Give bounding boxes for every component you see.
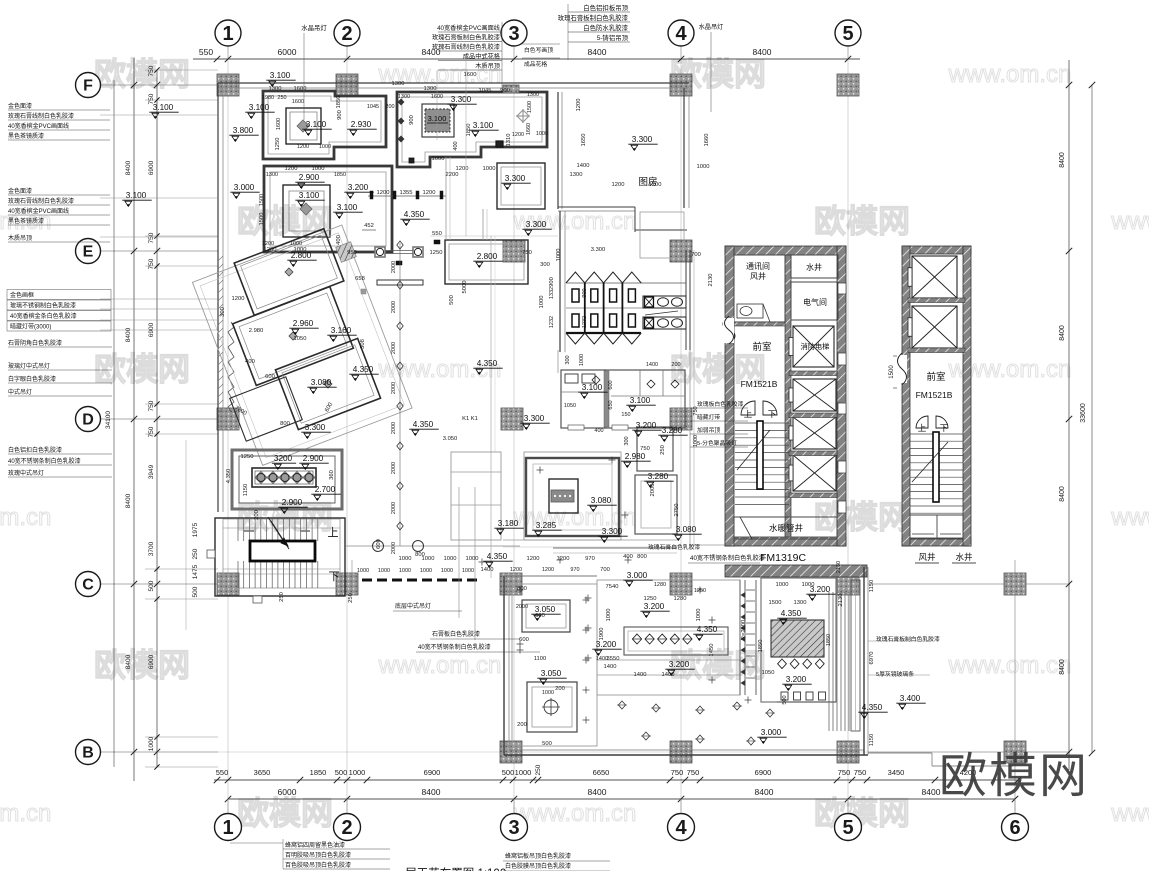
- svg-text:3.285: 3.285: [536, 521, 557, 530]
- svg-text:1000: 1000: [483, 166, 496, 172]
- svg-text:8400: 8400: [125, 160, 132, 175]
- svg-text:2000: 2000: [391, 502, 397, 514]
- svg-text:750: 750: [148, 65, 155, 76]
- svg-text:2.900: 2.900: [299, 173, 320, 182]
- svg-text:1000: 1000: [399, 568, 411, 574]
- axis bubble grid markers: [215, 20, 241, 46]
- svg-text:2000: 2000: [650, 484, 656, 497]
- svg-text:3.100: 3.100: [337, 203, 358, 212]
- svg-text:1850: 1850: [758, 640, 764, 653]
- core internal partition vertical: [785, 255, 791, 537]
- right lobby door: [916, 416, 928, 428]
- svg-text:8400: 8400: [125, 327, 132, 342]
- svg-text:1250: 1250: [430, 250, 443, 256]
- svg-text:百色胶吸吊顶白色乳胶漆: 百色胶吸吊顶白色乳胶漆: [285, 861, 351, 869]
- svg-text:400: 400: [623, 554, 633, 560]
- svg-text:1000: 1000: [466, 556, 479, 562]
- svg-text:1200: 1200: [542, 567, 554, 573]
- svg-text:452: 452: [364, 223, 374, 229]
- svg-text:金色面漆: 金色面漆: [8, 187, 32, 195]
- leader lines down to notes: [458, 487, 460, 618]
- svg-text:250: 250: [277, 95, 286, 101]
- partition under tongxun room: [734, 322, 785, 326]
- svg-text:白色铝扣白色乳胶漆: 白色铝扣白色乳胶漆: [8, 446, 62, 454]
- svg-text:2000: 2000: [391, 382, 397, 394]
- svg-text:3.100: 3.100: [270, 71, 291, 80]
- svg-text:8400: 8400: [588, 47, 607, 57]
- svg-text:3.300: 3.300: [524, 414, 545, 423]
- svg-text:1000: 1000: [420, 568, 432, 574]
- svg-text:www.om.cn: www.om.cn: [378, 652, 502, 679]
- svg-text:8400: 8400: [1059, 486, 1066, 502]
- room dianqijian: [791, 282, 838, 320]
- svg-text:www.om.cn: www.om.cn: [0, 800, 51, 827]
- svg-text:3.100: 3.100: [126, 191, 147, 200]
- stair side tab: [207, 550, 215, 558]
- svg-text:1000: 1000: [556, 249, 562, 262]
- svg-text:风井: 风井: [918, 552, 935, 562]
- svg-text:3650: 3650: [254, 768, 271, 777]
- svg-text:800: 800: [517, 586, 527, 592]
- svg-text:3.100: 3.100: [299, 191, 320, 200]
- slanted counter line: [645, 311, 678, 315]
- svg-text:通讯间: 通讯间: [746, 261, 770, 271]
- basin symbol in tongxun room: [737, 304, 763, 318]
- svg-text:www.: www.: [1110, 504, 1149, 531]
- escalator corridor strip: [739, 580, 741, 695]
- B axis wall step right of wing: [868, 752, 932, 754]
- svg-text:B: B: [82, 745, 94, 762]
- svg-text:300: 300: [624, 436, 630, 445]
- svg-text:玫瑰石膏白色乳胶漆: 玫瑰石膏白色乳胶漆: [648, 543, 700, 551]
- svg-text:1300: 1300: [527, 92, 539, 98]
- svg-text:2.980: 2.980: [625, 452, 646, 461]
- svg-text:黑色茶镜质漆: 黑色茶镜质漆: [8, 132, 44, 140]
- fire elevator shaft: [793, 326, 834, 367]
- svg-text:3.080: 3.080: [676, 525, 697, 534]
- svg-text:8400: 8400: [1059, 325, 1066, 341]
- dark ceiling panel 3.100 in room B: [422, 104, 454, 137]
- kitchen right wall: [683, 88, 685, 208]
- right core shaft separators: [908, 298, 965, 303]
- svg-text:2130: 2130: [836, 561, 842, 573]
- wing left room: [512, 584, 597, 746]
- svg-text:1000: 1000: [462, 568, 474, 574]
- svg-text:900: 900: [409, 115, 415, 125]
- svg-text:1200: 1200: [423, 190, 436, 196]
- svg-text:电气间: 电气间: [803, 297, 827, 307]
- left dimension chains: [133, 58, 135, 781]
- svg-text:3.200: 3.200: [636, 421, 657, 430]
- svg-text:700: 700: [600, 567, 610, 573]
- svg-text:300: 300: [540, 262, 550, 268]
- svg-text:8400: 8400: [1059, 659, 1066, 675]
- elevator shaft 3: [793, 455, 836, 491]
- rotated room 2.960: [233, 287, 354, 386]
- svg-text:2000: 2000: [391, 462, 397, 474]
- svg-text:5: 5: [842, 817, 853, 839]
- svg-text:1200: 1200: [297, 144, 309, 150]
- svg-text:500: 500: [192, 586, 199, 597]
- svg-text:3.400: 3.400: [900, 694, 921, 703]
- svg-text:3.300: 3.300: [591, 247, 606, 253]
- svg-text:3.100: 3.100: [582, 383, 603, 392]
- svg-text:4.350: 4.350: [862, 703, 883, 712]
- svg-text:4.350: 4.350: [413, 420, 434, 429]
- svg-text:8400: 8400: [1059, 152, 1066, 168]
- hall right corridor line: [490, 236, 492, 578]
- svg-text:欧模网: 欧模网: [237, 795, 333, 831]
- svg-text:1000: 1000: [802, 582, 815, 588]
- elevator door notches right wall: [838, 283, 846, 294]
- svg-text:2750: 2750: [674, 504, 680, 517]
- svg-text:2.900: 2.900: [303, 454, 324, 463]
- rotated cluster diamonds: [285, 268, 293, 276]
- svg-text:650: 650: [608, 400, 614, 409]
- svg-text:4.350: 4.350: [781, 609, 802, 618]
- svg-text:4.350: 4.350: [477, 359, 498, 368]
- svg-text:白色胶膜吊顶白色乳胶漆: 白色胶膜吊顶白色乳胶漆: [505, 862, 571, 870]
- svg-text:500: 500: [782, 695, 788, 704]
- svg-text:2000: 2000: [391, 301, 397, 313]
- svg-text:3.100: 3.100: [630, 396, 651, 405]
- right core bottom rooms: [910, 515, 963, 539]
- svg-text:1200: 1200: [649, 182, 662, 188]
- svg-text:1000: 1000: [349, 768, 366, 777]
- svg-text:前室: 前室: [926, 371, 945, 383]
- svg-text:1500: 1500: [889, 365, 895, 379]
- svg-text:1000: 1000: [378, 568, 390, 574]
- svg-text:3.000: 3.000: [627, 571, 648, 580]
- svg-text:1000: 1000: [357, 568, 369, 574]
- svg-text:8400: 8400: [755, 787, 774, 797]
- svg-text:4.350: 4.350: [487, 552, 508, 561]
- svg-text:下: 下: [940, 423, 949, 433]
- svg-text:1660: 1660: [704, 134, 710, 147]
- column at grid 3 top: [503, 85, 519, 93]
- small boxes row: [781, 692, 788, 700]
- svg-text:玫瑰石膏线制白色乳胶漆: 玫瑰石膏线制白色乳胶漆: [432, 43, 500, 51]
- svg-text:3.200: 3.200: [644, 602, 665, 611]
- svg-text:1100: 1100: [534, 656, 546, 662]
- svg-text:6650: 6650: [593, 768, 610, 777]
- svg-text:970: 970: [570, 567, 579, 573]
- svg-text:1000: 1000: [319, 144, 331, 150]
- vertical axis lines: [227, 47, 229, 58]
- right core staircase: [910, 433, 963, 435]
- svg-text:1000: 1000: [444, 556, 457, 562]
- svg-text:前室: 前室: [752, 341, 771, 353]
- crosshair ceiling fixture: [544, 700, 558, 714]
- svg-text:1400: 1400: [662, 672, 675, 678]
- svg-text:1200: 1200: [612, 182, 625, 188]
- svg-text:200: 200: [517, 722, 527, 728]
- svg-text:5-铸铝吊顶: 5-铸铝吊顶: [597, 33, 629, 42]
- svg-text:1250: 1250: [694, 588, 706, 594]
- room 3.100 second left (E row) ceiling band: [264, 166, 392, 252]
- svg-text:1280: 1280: [674, 596, 687, 602]
- top dimension line: [193, 58, 860, 60]
- svg-text:玫瑰石膏板制白色乳胶漆: 玫瑰石膏板制白色乳胶漆: [876, 635, 940, 643]
- svg-text:360: 360: [329, 470, 335, 480]
- svg-text:6900: 6900: [755, 768, 772, 777]
- svg-text:6000: 6000: [278, 787, 297, 797]
- svg-text:1300: 1300: [794, 600, 807, 606]
- svg-text:1250: 1250: [644, 596, 657, 602]
- svg-text:200: 200: [385, 104, 394, 110]
- svg-text:6000: 6000: [278, 47, 297, 57]
- svg-text:600: 600: [535, 613, 545, 619]
- room tongxunjian fengjing: [734, 255, 785, 322]
- svg-text:800: 800: [280, 421, 290, 427]
- svg-text:1250: 1250: [241, 454, 254, 460]
- svg-text:D: D: [82, 412, 94, 429]
- bottom wing outline: [503, 576, 505, 755]
- diamond row center: [632, 634, 641, 644]
- svg-text:1050: 1050: [762, 670, 775, 676]
- svg-text:6900: 6900: [424, 768, 441, 777]
- svg-text:40宽不锈钢条制白色乳胶漆: 40宽不锈钢条制白色乳胶漆: [418, 643, 491, 651]
- svg-text:4.350: 4.350: [404, 210, 425, 219]
- svg-text:1300: 1300: [424, 86, 437, 92]
- svg-text:白字眼白色乳胶漆: 白字眼白色乳胶漆: [8, 375, 56, 383]
- svg-text:8400: 8400: [588, 787, 607, 797]
- svg-text:黑色茶镜质漆: 黑色茶镜质漆: [8, 217, 44, 225]
- svg-text:加弱吊顶: 加弱吊顶: [697, 426, 720, 434]
- svg-text:950: 950: [347, 250, 357, 256]
- svg-text:1: 1: [222, 23, 233, 45]
- svg-text:5-分色聚晶吸灯: 5-分色聚晶吸灯: [697, 439, 737, 447]
- svg-text:3700: 3700: [148, 541, 155, 556]
- small rooms left of big room: [451, 452, 501, 540]
- hall long bar: [377, 280, 423, 285]
- svg-text:1600: 1600: [276, 118, 282, 130]
- svg-text:K1 K1: K1 K1: [462, 416, 478, 422]
- svg-text:水井: 水井: [955, 552, 972, 562]
- svg-text:1045: 1045: [479, 88, 492, 94]
- svg-text:3.080: 3.080: [311, 378, 332, 387]
- diamond row right: [778, 659, 787, 669]
- svg-text:550: 550: [216, 768, 229, 777]
- wing left room box 2: [527, 682, 577, 732]
- svg-text:1300: 1300: [570, 172, 583, 178]
- svg-text:500: 500: [148, 580, 155, 591]
- svg-text:34100: 34100: [105, 411, 112, 429]
- svg-text:水暖管井: 水暖管井: [769, 523, 803, 533]
- svg-text:1000: 1000: [579, 354, 585, 366]
- svg-text:700: 700: [691, 252, 701, 258]
- svg-text:1300: 1300: [269, 86, 282, 92]
- svg-text:1500: 1500: [259, 194, 265, 206]
- svg-text:800: 800: [415, 552, 425, 558]
- hall pendant pair squares: [375, 247, 385, 257]
- svg-text:C: C: [82, 577, 94, 594]
- svg-text:1000: 1000: [515, 768, 532, 777]
- hall lower line with circles: [346, 545, 520, 547]
- svg-text:1050: 1050: [294, 336, 307, 342]
- svg-text:600: 600: [265, 374, 275, 380]
- linear grille with circular fixtures: [252, 468, 316, 487]
- svg-text:1200: 1200: [285, 166, 298, 172]
- diamond fixture room A: [297, 120, 309, 132]
- svg-text:250: 250: [535, 764, 542, 775]
- svg-text:金色面漆: 金色面漆: [8, 102, 32, 110]
- south wall of main block: [553, 547, 677, 549]
- svg-text:FM1319C: FM1319C: [760, 552, 807, 564]
- svg-text:1900: 1900: [599, 628, 605, 641]
- svg-text:2200: 2200: [446, 172, 459, 178]
- svg-text:2.800: 2.800: [477, 252, 498, 261]
- svg-text:1045: 1045: [367, 104, 379, 110]
- svg-text:成品花格: 成品花格: [524, 60, 547, 68]
- svg-text:750: 750: [148, 232, 155, 243]
- svg-text:250: 250: [660, 445, 666, 455]
- svg-text:水晶吊灯: 水晶吊灯: [301, 23, 327, 32]
- hall east wall: [689, 350, 691, 545]
- svg-text:下: 下: [768, 409, 777, 419]
- svg-text:2: 2: [341, 23, 352, 45]
- svg-text:500: 500: [502, 768, 515, 777]
- left core staircase: [735, 422, 789, 424]
- svg-text:www.om.cn: www.om.cn: [0, 504, 51, 531]
- svg-text:玫瑰中式吊灯: 玫瑰中式吊灯: [8, 469, 44, 477]
- svg-text:6900: 6900: [148, 160, 155, 175]
- svg-text:5: 5: [842, 23, 853, 45]
- svg-text:3.050: 3.050: [541, 669, 562, 678]
- svg-text:1200: 1200: [264, 247, 277, 253]
- svg-text:2130: 2130: [838, 594, 844, 607]
- svg-text:8400: 8400: [422, 787, 441, 797]
- svg-text:750: 750: [522, 250, 532, 256]
- svg-text:玫瑰石膏板制白色乳胶漆: 玫瑰石膏板制白色乳胶漆: [432, 34, 500, 42]
- svg-text:1000: 1000: [399, 556, 412, 562]
- svg-text:下: 下: [329, 571, 340, 583]
- svg-text:2000: 2000: [391, 422, 397, 434]
- corridor wall below room B: [445, 157, 447, 240]
- room B top-middle ceiling band: [397, 92, 547, 167]
- svg-text:750: 750: [148, 426, 155, 437]
- horizontal axis lines: [100, 84, 218, 86]
- svg-text:底层中式吊灯: 底层中式吊灯: [395, 602, 431, 610]
- room 2.900 2.700 ceiling: [232, 450, 342, 509]
- svg-text:3.000: 3.000: [234, 183, 255, 192]
- left exterior wall: [217, 83, 219, 512]
- svg-text:1600: 1600: [294, 86, 307, 92]
- svg-text:6970: 6970: [869, 652, 875, 665]
- rotated room 2.800: [234, 229, 344, 316]
- svg-text:暗藏灯带: 暗藏灯带: [697, 413, 720, 421]
- wing left room box 1: [522, 600, 570, 632]
- svg-text:1150: 1150: [869, 734, 875, 746]
- svg-text:1850: 1850: [826, 634, 832, 646]
- svg-text:3.180: 3.180: [498, 519, 519, 528]
- washbasin counter rows: [643, 296, 686, 308]
- svg-text:2000: 2000: [391, 342, 397, 354]
- svg-text:1200: 1200: [232, 296, 245, 302]
- svg-text:250: 250: [279, 592, 285, 602]
- svg-text:3200: 3200: [274, 454, 293, 463]
- svg-text:石膏板白色乳胶漆: 石膏板白色乳胶漆: [432, 630, 480, 638]
- svg-text:水晶吊灯: 水晶吊灯: [699, 23, 724, 31]
- svg-text:3949: 3949: [148, 464, 155, 479]
- svg-text:2.930: 2.930: [351, 120, 372, 129]
- svg-text:1000: 1000: [539, 296, 545, 309]
- svg-text:250: 250: [348, 593, 354, 603]
- svg-text:1200: 1200: [262, 241, 274, 247]
- svg-text:500: 500: [335, 768, 348, 777]
- wing center band box: [624, 627, 728, 655]
- svg-text:8400: 8400: [125, 493, 132, 508]
- room shuijing: [791, 255, 838, 278]
- main staircase: [215, 518, 345, 596]
- svg-text:600: 600: [376, 539, 382, 549]
- svg-text:1600: 1600: [292, 99, 304, 105]
- svg-text:6900: 6900: [148, 654, 155, 669]
- svg-text:1500: 1500: [769, 600, 782, 606]
- svg-text:1850: 1850: [310, 768, 327, 777]
- svg-text:40宽不锈钢条制白色乳胶漆: 40宽不锈钢条制白色乳胶漆: [690, 554, 765, 562]
- small plus marks wing left room: [583, 599, 590, 601]
- svg-text:1200: 1200: [576, 99, 582, 112]
- right core shaft 2: [912, 306, 957, 348]
- inner fixture box big room: [549, 479, 578, 513]
- svg-text:玻璃灯中式吊灯: 玻璃灯中式吊灯: [8, 362, 50, 370]
- svg-text:欧模网: 欧模网: [814, 203, 910, 239]
- room 3.300 small (between): [497, 163, 545, 209]
- svg-text:1000: 1000: [696, 609, 702, 622]
- svg-text:3: 3: [508, 817, 519, 839]
- bottom dimension row 1: [214, 779, 1020, 781]
- svg-text:900: 900: [549, 277, 555, 287]
- svg-text:308: 308: [360, 339, 366, 349]
- shaft separators: [789, 371, 837, 376]
- wing center lower lines: [597, 659, 740, 661]
- structural columns (hatched): [217, 74, 239, 96]
- svg-text:成品中式花格: 成品中式花格: [463, 53, 501, 61]
- svg-text:7540: 7540: [606, 584, 619, 590]
- svg-text:3.200: 3.200: [669, 660, 690, 669]
- svg-text:1200: 1200: [377, 190, 390, 196]
- stair mid landing bold rect: [250, 541, 315, 561]
- svg-text:3.100: 3.100: [306, 120, 327, 129]
- svg-text:1000: 1000: [312, 166, 325, 172]
- svg-text:1000: 1000: [776, 582, 789, 588]
- right dimension chain: [1068, 60, 1070, 770]
- svg-text:970: 970: [585, 556, 595, 562]
- toilet stalls row 2: [572, 314, 579, 327]
- washroom walls: [559, 211, 561, 352]
- svg-text:E: E: [83, 244, 94, 261]
- big room 3.080 bottom-center: [524, 452, 621, 540]
- svg-text:1400: 1400: [634, 672, 647, 678]
- svg-text:1450: 1450: [709, 644, 715, 657]
- svg-text:1232: 1232: [582, 316, 588, 328]
- svg-text:3.280: 3.280: [662, 426, 683, 435]
- svg-text:2.700: 2.700: [315, 485, 336, 494]
- svg-text:1975: 1975: [192, 522, 199, 537]
- svg-text:1000: 1000: [290, 241, 302, 247]
- elevator shaft 1: [793, 379, 836, 411]
- right notes leaders: [868, 640, 930, 642]
- svg-text:750: 750: [148, 400, 155, 411]
- svg-text:4.350: 4.350: [697, 625, 718, 634]
- svg-text:1500: 1500: [259, 213, 265, 226]
- svg-text:www.om.cn: www.om.cn: [513, 800, 637, 827]
- room 3.100 top-left (F row) ceiling band: [263, 91, 386, 159]
- room 2.800 (E row middle): [445, 240, 528, 284]
- svg-text:www.: www.: [1110, 800, 1149, 827]
- extra plus marks bottom-center: [585, 597, 592, 599]
